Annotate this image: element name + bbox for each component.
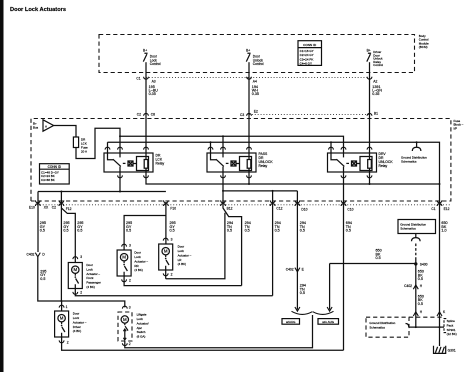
svg-text:Door Lock Actuators: Door Lock Actuators [10,7,66,13]
svg-text:C3=68 BK: C3=68 BK [41,178,55,182]
svg-text:C2: C2 [52,205,56,209]
svg-text:C8: C8 [151,113,155,117]
svg-text:3: 3 [171,237,173,241]
svg-text:2: 2 [80,291,82,295]
svg-text:0.5: 0.5 [346,229,351,233]
label 295 GY 0.5 (RR branch) [126,221,132,233]
svg-text:I/P: I/P [454,126,458,130]
svg-text:0.5: 0.5 [77,229,82,233]
net: relay NC ground line [108,142,440,184]
net: lock feed from relay1 common [119,172,121,192]
svg-text:1.0: 1.0 [441,229,446,233]
svg-text:2: 2 [67,341,69,345]
svg-text:0.5: 0.5 [245,229,250,233]
node C1/A3 connector at BCM [144,77,149,79]
node C10 connector [343,172,345,350]
svg-text:C12: C12 [276,206,282,210]
BCM (Body Control Module) box [99,35,415,73]
svg-text:SP301: SP301 [447,328,456,332]
svg-text:2: 2 [171,273,173,277]
B+ bus tap [33,120,54,131]
ground reference: Ground Distribution Schematics (S400) [398,220,436,234]
BCM label [419,34,429,49]
relay U1: DR LCK Relay [104,147,153,178]
wire: E12 ground wire down [439,184,441,327]
svg-text:Actuator –: Actuator – [134,259,148,263]
label 1391 L-GN 0.35 [372,85,382,96]
svg-text:B12: B12 [227,206,233,210]
svg-text:Switch: Switch [137,330,146,334]
wire: relay3 coil low stub [369,172,371,184]
CONN ID table (fuse block) [40,164,70,184]
svg-text:0.35: 0.35 [252,92,259,96]
BCM CONN ID table [298,41,322,66]
dashed harness boundary at splice pack [409,316,444,318]
wire: to G301 [439,327,441,346]
label 650 BK 0.5 [418,294,424,306]
wire: relay2 NC pin stub [210,142,212,153]
node XX C2 / F12 connector [60,192,62,302]
svg-text:(12 BK): (12 BK) [447,332,457,336]
node F10 connector [164,200,169,206]
svg-text:CONN ID: CONN ID [48,165,62,169]
node A4 connector at BCM [247,77,252,79]
label 650 BK 0.5 (liftgate ground) [376,249,382,261]
wire: BCM A3 output, 195 L-BU [145,62,147,153]
wire: fuse output feed to relay 1 B+ pin [76,128,120,158]
svg-text:C402: C402 [27,252,35,256]
svg-text:B+: B+ [367,48,371,52]
label 694 TN 0.5 (C10 wire) [346,221,352,233]
svg-text:(4 BK): (4 BK) [178,262,187,266]
wire: front passenger return to C12 [75,289,272,296]
label 294 TN 0.5 (B12 left branch) [227,221,233,233]
svg-text:3: 3 [129,243,131,247]
node C3/E2 connector [247,113,252,115]
svg-text:Relay: Relay [379,164,388,168]
wire: LR return to B12 left branch [165,271,167,279]
node C402 D connector [35,253,40,257]
wire: S400 to C402 H [415,264,417,327]
node S400 splice [414,262,417,265]
svg-text:Pack: Pack [447,323,454,327]
label 294 TN 0.5 (B12 right branch) [245,221,251,233]
svg-text:C10: C10 [347,207,353,211]
label 650 BK 1.0 (E12 ground wire) [441,221,447,233]
svg-text:Lock: Lock [137,317,144,321]
svg-text:C3: C3 [240,113,244,117]
relay U2: PASS DR UNLOCK Relay [207,147,256,178]
actuator M4: Door Lock Actuator - Driver [55,305,69,343]
svg-text:Control: Control [373,63,383,67]
svg-text:Relay: Relay [156,161,165,165]
wire: driver actuator unlock return 694 TN [62,337,344,350]
actuator M1: Door Lock Actuator - Front Passenger [68,257,82,295]
svg-text:2: 2 [129,342,131,346]
svg-text:0.5: 0.5 [418,277,423,281]
svg-text:2: 2 [129,279,131,283]
svg-text:CONN ID: CONN ID [303,43,317,47]
svg-text:C1: C1 [136,77,140,81]
wire: F12 branch to front passenger actuator [61,208,75,263]
node splice pack entry H [413,312,418,316]
svg-text:Actuator –: Actuator – [86,272,100,276]
node w/AUG option terminal [295,307,300,311]
svg-text:E10: E10 [29,205,35,209]
switch: Door Unlock Control (BCM internal) [246,48,264,66]
svg-text:Door: Door [73,312,80,316]
node D10 connector [296,191,298,310]
svg-text:Actuator/: Actuator/ [137,321,149,325]
svg-text:C1: C1 [431,207,435,211]
svg-text:Front: Front [86,276,93,280]
node B1 connector [367,113,372,115]
actuator M2: Door Lock Actuator - RR [117,244,131,282]
svg-text:0.5: 0.5 [227,229,232,233]
svg-text:(6 GA): (6 GA) [137,335,146,339]
node C2/C8 connector at fuse block top [144,113,149,115]
net: liftgate ground (w/o AUG) to S400 [330,263,416,265]
wire: relay2 NO pin stub [222,136,224,153]
wire: relay2 coil low stub [248,172,250,184]
node A2 connector at BCM [367,77,372,79]
relay U3: DRV DR UNLOCK Relay [328,147,377,178]
svg-text:Ajar: Ajar [137,326,142,330]
option label w/o AUG [318,319,339,325]
svg-text:E12: E12 [444,207,450,211]
svg-text:Ground Distribution: Ground Distribution [369,321,395,325]
dotted harness line mid [249,113,370,115]
svg-text:w/o AUG: w/o AUG [322,320,335,324]
wire: BCM A2 output, 1391 L-GN [369,62,371,153]
svg-text:0.5: 0.5 [300,229,305,233]
svg-text:Lock: Lock [134,255,141,259]
node E10 connector [37,192,39,253]
svg-text:Actuator –: Actuator – [73,320,87,324]
svg-text:S400: S400 [420,263,428,267]
svg-text:0.5: 0.5 [40,229,45,233]
node B12 connector [221,200,226,206]
wire: D10 unlock feed with C402 E [295,268,300,272]
actuator M3: Door Lock Actuator - LR [159,238,173,276]
splice pack SP301 bus [409,326,444,328]
svg-text:0.5: 0.5 [170,229,175,233]
svg-text:0.5: 0.5 [376,256,381,260]
svg-text:0.5: 0.5 [275,229,280,233]
ground G301 [434,346,446,354]
svg-text:C2: C2 [137,113,141,117]
svg-text:(4 BK): (4 BK) [134,268,143,272]
label 294 TN 0.5 (D10 wire) [300,221,306,233]
node C12 connector [272,191,274,296]
node splice pack entry K [437,312,442,316]
label 295 GY 0.5 (F12 right branch) [77,221,83,233]
switch: Driver Door Unlock Relay Control (BCM internal) [367,48,384,67]
svg-text:Liftgate: Liftgate [137,313,147,317]
svg-text:F12: F12 [66,207,72,211]
svg-text:A2: A2 [373,80,377,84]
wire: B12 left branch [166,213,225,279]
svg-text:0.5: 0.5 [40,277,45,281]
svg-text:F10: F10 [170,206,176,210]
svg-text:w/AUG: w/AUG [286,320,296,324]
label 295 GY 0.5 (driver lock feed) [40,269,46,281]
svg-text:B+: B+ [246,48,250,52]
svg-text:1: 1 [66,305,68,309]
label 195 L-BU 0.35 [149,85,159,96]
svg-text:Relay: Relay [259,164,268,168]
wire: RR return to B12 right branch [124,277,242,286]
ground reference: Ground Distribution Schematics (relay line) [416,141,418,143]
svg-text:B1: B1 [374,112,378,116]
option brackets [292,311,334,314]
svg-text:Passenger: Passenger [86,281,100,285]
svg-text:Door: Door [134,251,141,255]
fuse DR LCK Fuse 20 A [73,137,78,148]
svg-text:Door: Door [86,263,93,267]
svg-text:0.5: 0.5 [63,229,68,233]
dotted harness line under BCM [146,76,370,78]
svg-text:G301: G301 [448,349,456,353]
svg-text:Control: Control [253,62,264,66]
label 194 WH 0.35 [252,85,259,96]
svg-text:Schematics: Schematics [400,227,416,231]
svg-text:Door: Door [178,245,185,249]
node lock feed junction (driver/liftgate) [60,300,62,302]
label 294 TN 0.5 (liftgate w/AUG feed) [300,284,306,296]
svg-text:0.5: 0.5 [300,291,305,295]
wire: relay3 NC pin stub [330,142,332,153]
node C402 H connector [413,285,418,289]
svg-text:C402: C402 [404,284,412,288]
svg-text:M: M [123,317,127,322]
fuse block label [454,119,464,130]
net: B+ switched feed line to relay NO contacts [120,136,344,153]
svg-text:(BCM): (BCM) [419,45,428,49]
wire: B+ bus to fuse [54,126,76,138]
svg-text:Driver: Driver [73,325,81,329]
liftgate lock actuator / ajar switch [118,306,132,345]
svg-text:E2: E2 [254,109,258,113]
svg-text:20 A: 20 A [81,150,87,154]
svg-text:A: A [45,124,47,128]
svg-text:Lock: Lock [86,267,93,271]
label 294 TN 0.5 (C12 wire) [275,221,281,233]
label 295 GY 0.5 (F12 left branch) [63,221,69,233]
net: relay coil common ground line [146,172,440,184]
svg-text:0.35: 0.35 [149,92,156,96]
switch: Door Lock Control (BCM internal) [143,48,161,66]
label 650 BK 0.5 [418,270,424,282]
svg-text:C402: C402 [286,268,294,272]
Fuse Block - I/P box [31,119,451,202]
svg-text:Lock: Lock [178,249,185,253]
option label w/AUG [282,319,300,325]
svg-text:C4=6 GY: C4=6 GY [300,62,312,66]
svg-text:Schematics: Schematics [401,160,417,164]
svg-text:A4: A4 [253,80,257,84]
svg-text:3: 3 [129,305,131,309]
svg-text:(4 BK): (4 BK) [73,329,82,333]
net: unlock feed from relay2 common [223,172,242,286]
wire: BCM A4 output, 194 WH [248,62,250,153]
svg-text:0.5: 0.5 [418,302,423,306]
svg-text:B+: B+ [143,48,147,52]
wire: liftgate return to option brackets [125,315,313,348]
dotted line at fuse block bottom [37,204,451,206]
svg-text:0.5: 0.5 [126,229,131,233]
wire: F10 branch to RR and LR actuators [165,203,167,244]
svg-text:Actuator –: Actuator – [178,253,192,257]
svg-text:A3: A3 [152,80,156,84]
svg-text:(4 BK): (4 BK) [86,285,95,289]
svg-text:Control: Control [150,62,161,66]
svg-text:Lock: Lock [73,316,80,320]
label 295 GY 0.5 (E10 branch) [40,221,46,233]
ground reference: Ground Distribution Schematics (SP301) [366,317,409,337]
node w/o AUG option terminal [329,264,331,310]
svg-text:Bus: Bus [33,125,39,129]
node C1/E12 connector [437,200,442,206]
svg-text:0.35: 0.35 [372,92,379,96]
svg-text:Splice: Splice [447,319,456,323]
svg-text:Schematics: Schematics [369,326,385,330]
svg-text:3: 3 [80,255,82,259]
svg-text:D10: D10 [301,207,307,211]
label 295 GY 0.5 (LR branch) [170,221,176,233]
